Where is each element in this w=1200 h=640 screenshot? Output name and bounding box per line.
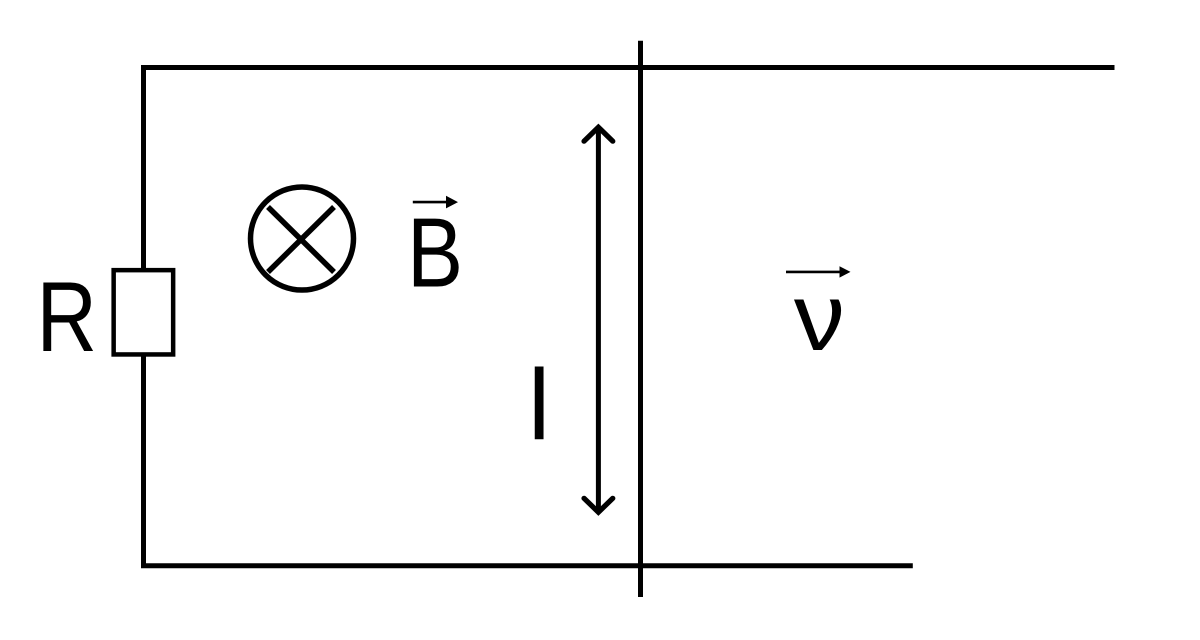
svg-text:R: R [37, 263, 97, 373]
svg-text:B: B [407, 199, 463, 309]
svg-text:l: l [528, 349, 550, 461]
svg-text:ν: ν [794, 263, 845, 371]
